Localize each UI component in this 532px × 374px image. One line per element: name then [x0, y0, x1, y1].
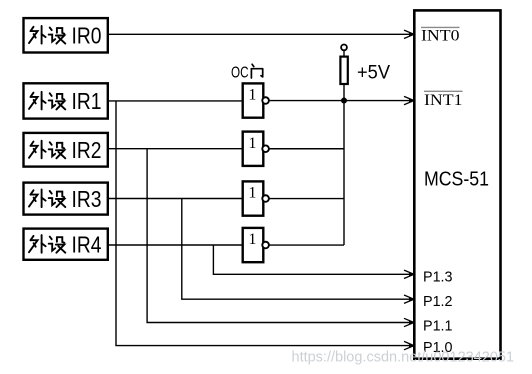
OC gate U4: [243, 228, 269, 262]
wire IR4 to gate U4 input: [108, 244, 243, 246]
svg-text:P1.1: P1.1: [423, 317, 453, 334]
OC gate U2: [243, 132, 269, 166]
wire IR2 to gate U2 input: [108, 148, 243, 150]
wire IR4 branch down to P1.3: [213, 245, 411, 274]
svg-text:IR3: IR3: [72, 186, 102, 212]
box 外设 IR1: [24, 83, 108, 118]
junction node at INT1 wire: [341, 98, 347, 104]
wire IR1 branch down to P1.0: [116, 101, 411, 346]
pin label INT1 (active low): [424, 91, 463, 109]
wire IR0 to INT0: [108, 33, 411, 35]
box 外设 IR3: [24, 183, 108, 215]
OC gate U1: [243, 83, 269, 117]
wire IR3 branch down to P1.2: [182, 199, 411, 300]
OC gate U3: [243, 181, 269, 215]
wire gate U2 output to OR bus: [269, 148, 344, 150]
svg-text:+5V: +5V: [357, 62, 390, 84]
svg-text:1: 1: [248, 184, 256, 202]
wire IR1 to gate U1 input: [108, 100, 243, 102]
wire IR3 to gate U3 input: [108, 198, 243, 200]
box 外设 IR2: [24, 133, 108, 167]
box 外设 IR4: [24, 229, 108, 260]
box 外设 IR0: [24, 18, 108, 52]
svg-text:OC: OC: [231, 64, 249, 81]
svg-text:MCS-51: MCS-51: [424, 167, 489, 190]
svg-text:IR4: IR4: [72, 232, 102, 258]
wire gate U3 output to OR bus: [269, 198, 344, 200]
svg-text:INT1: INT1: [424, 92, 463, 109]
wire wired-OR vertical bus: [343, 101, 345, 246]
pull-up resistor R1: [340, 45, 347, 101]
svg-text:1: 1: [248, 134, 256, 152]
svg-text:INT0: INT0: [421, 27, 460, 44]
wire gate U1 output to INT1: [269, 100, 411, 102]
pin label INT0 (active low): [421, 27, 460, 44]
label OC门: [231, 64, 263, 81]
wire gate U4 output to OR bus: [269, 244, 344, 246]
svg-text:IR0: IR0: [72, 22, 102, 48]
svg-text:1: 1: [248, 230, 256, 248]
wire IR2 branch down to P1.1: [147, 149, 411, 323]
svg-text:IR2: IR2: [72, 137, 102, 163]
svg-text:P1.2: P1.2: [423, 293, 453, 310]
svg-text:1: 1: [248, 86, 256, 104]
svg-text:https://blog.csdn.net/u0012342: https://blog.csdn.net/u0012342051: [292, 350, 515, 366]
IC MCS-51: [414, 10, 500, 358]
svg-text:IR1: IR1: [72, 88, 102, 114]
svg-text:P1.3: P1.3: [423, 268, 453, 285]
